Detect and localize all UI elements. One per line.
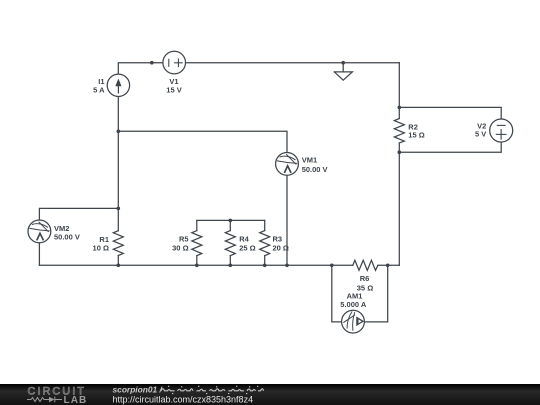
wire VM2 branch <box>39 208 118 265</box>
wire bottom rail <box>39 264 352 266</box>
wire R3 leads <box>264 220 266 230</box>
svg-text:scorpion01 /: scorpion01 / <box>113 384 164 394</box>
arabic title squiggle <box>161 386 264 393</box>
footer bar <box>0 384 540 405</box>
wire bottom rail right <box>378 264 399 266</box>
resistor R4 <box>225 231 235 256</box>
wire V2 loop <box>399 107 501 152</box>
svg-text:50.00 V: 50.00 V <box>54 232 80 241</box>
node VM1 bottom <box>285 264 289 268</box>
wire I1 to VM1 node <box>117 96 119 231</box>
svg-text:5 A: 5 A <box>93 85 105 94</box>
svg-text:AM1: AM1 <box>347 291 363 300</box>
node VM1 tap <box>117 130 121 134</box>
svg-text:R6: R6 <box>360 274 370 283</box>
resistor R1 <box>113 231 123 256</box>
resistor R5 <box>192 231 202 256</box>
svg-text:20 Ω: 20 Ω <box>273 243 289 252</box>
svg-text:25 Ω: 25 Ω <box>239 243 255 252</box>
voltage source V1 <box>163 51 186 74</box>
current source I1 <box>107 74 129 96</box>
voltage source V2 <box>490 119 513 142</box>
node AM1 right <box>386 264 390 268</box>
voltmeter VM1 <box>276 153 299 176</box>
wire R1 bottom lead <box>117 256 119 266</box>
node R3 bottom <box>263 264 267 268</box>
wire AM1 loop <box>332 265 388 322</box>
svg-text:5 V: 5 V <box>475 129 486 138</box>
node R4 top <box>229 219 233 223</box>
node R4 bottom <box>229 264 233 268</box>
svg-text:30 Ω: 30 Ω <box>172 243 188 252</box>
svg-text:LAB: LAB <box>64 395 88 405</box>
ground <box>334 63 352 80</box>
svg-text:15 V: 15 V <box>166 85 181 94</box>
node R1 bottom <box>117 264 121 268</box>
node top-left <box>150 61 154 65</box>
svg-text:5.000 A: 5.000 A <box>340 300 367 309</box>
node R2 bottom <box>398 150 402 154</box>
wire right vertical lower <box>398 143 400 265</box>
wire R5 leads <box>196 220 198 230</box>
svg-text:10 Ω: 10 Ω <box>93 243 109 252</box>
resistor R2 <box>394 119 404 144</box>
wire right vertical <box>398 63 400 119</box>
svg-text:http://circuitlab.com/czx835h3: http://circuitlab.com/czx835h3nf8z4 <box>113 394 254 404</box>
node VM2 tap <box>117 207 121 211</box>
wire VM1 branch <box>118 131 287 265</box>
node ground <box>341 61 345 65</box>
node R2 top <box>398 106 402 110</box>
svg-text:50.00 V: 50.00 V <box>302 165 328 174</box>
svg-text:VM1: VM1 <box>302 156 317 165</box>
node R5 bottom <box>195 264 199 268</box>
voltmeter VM2 <box>28 220 51 243</box>
resistor R6 <box>353 260 378 270</box>
svg-text:15 Ω: 15 Ω <box>408 131 424 140</box>
wire R4 leads <box>229 220 231 230</box>
wire top rail <box>118 63 399 75</box>
node AM1 left <box>330 264 334 268</box>
ammeter AM1 <box>342 310 365 333</box>
wire parallel bus top <box>197 219 265 221</box>
logo diode-wire <box>27 397 62 403</box>
resistor R3 <box>260 231 270 256</box>
